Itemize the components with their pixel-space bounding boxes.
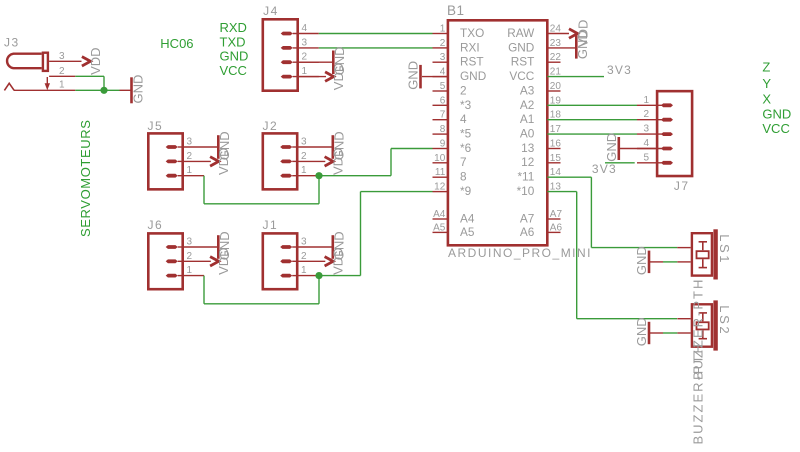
svg-text:GND: GND bbox=[508, 40, 534, 54]
svg-text:Y: Y bbox=[762, 76, 771, 91]
svg-text:1: 1 bbox=[187, 265, 193, 276]
svg-text:GND: GND bbox=[634, 317, 649, 346]
svg-text:*11: *11 bbox=[517, 170, 534, 184]
svg-text:1: 1 bbox=[301, 265, 307, 276]
svg-text:2: 2 bbox=[460, 83, 467, 97]
svg-text:VDD: VDD bbox=[331, 247, 346, 274]
svg-text:Z: Z bbox=[762, 59, 770, 74]
svg-text:4: 4 bbox=[643, 138, 649, 149]
svg-text:3: 3 bbox=[59, 51, 65, 62]
svg-text:RAW: RAW bbox=[507, 26, 535, 40]
svg-text:TXD: TXD bbox=[220, 34, 246, 49]
svg-text:2: 2 bbox=[187, 151, 193, 162]
svg-text:A5: A5 bbox=[460, 225, 475, 239]
svg-text:2: 2 bbox=[301, 151, 307, 162]
svg-text:A3: A3 bbox=[520, 83, 535, 97]
svg-text:3: 3 bbox=[187, 237, 193, 248]
svg-text:RXI: RXI bbox=[460, 40, 480, 54]
svg-text:7: 7 bbox=[460, 155, 467, 169]
svg-text:VCC: VCC bbox=[762, 121, 789, 136]
svg-text:4: 4 bbox=[302, 23, 308, 34]
svg-text:4: 4 bbox=[460, 112, 467, 126]
svg-text:3: 3 bbox=[302, 37, 308, 48]
svg-text:2: 2 bbox=[301, 251, 307, 262]
svg-text:A1: A1 bbox=[520, 112, 534, 126]
svg-text:1: 1 bbox=[187, 165, 193, 176]
svg-text:BUZZER-PTH: BUZZER-PTH bbox=[691, 342, 706, 444]
svg-text:3: 3 bbox=[301, 237, 307, 248]
svg-text:A6: A6 bbox=[520, 225, 535, 239]
svg-text:VDD: VDD bbox=[216, 247, 231, 274]
svg-text:1: 1 bbox=[643, 95, 649, 106]
svg-text:HC06: HC06 bbox=[160, 36, 193, 51]
svg-text:RXD: RXD bbox=[220, 20, 247, 35]
svg-text:J3: J3 bbox=[4, 36, 20, 50]
svg-text:VDD: VDD bbox=[331, 63, 346, 90]
svg-text:VCC: VCC bbox=[220, 63, 247, 78]
svg-text:3: 3 bbox=[643, 124, 649, 135]
svg-text:RST: RST bbox=[460, 55, 484, 69]
svg-text:3: 3 bbox=[187, 137, 193, 148]
svg-text:12: 12 bbox=[521, 155, 534, 169]
svg-text:A4: A4 bbox=[460, 211, 475, 225]
svg-text:GND: GND bbox=[460, 69, 486, 83]
svg-text:GND: GND bbox=[634, 246, 649, 275]
svg-text:5: 5 bbox=[643, 152, 649, 163]
svg-text:A7: A7 bbox=[520, 211, 534, 225]
svg-text:J2: J2 bbox=[263, 119, 279, 133]
svg-text:1: 1 bbox=[301, 165, 307, 176]
svg-text:A2: A2 bbox=[520, 98, 534, 112]
svg-text:*10: *10 bbox=[517, 184, 535, 198]
svg-text:VDD: VDD bbox=[88, 47, 103, 74]
svg-text:B1: B1 bbox=[447, 3, 465, 18]
svg-text:GND: GND bbox=[762, 106, 791, 121]
svg-text:VDD: VDD bbox=[216, 148, 231, 175]
svg-text:GND: GND bbox=[406, 61, 421, 90]
svg-text:2: 2 bbox=[59, 66, 65, 77]
svg-text:J4: J4 bbox=[263, 4, 279, 18]
svg-text:1: 1 bbox=[59, 80, 65, 91]
svg-text:*6: *6 bbox=[460, 141, 472, 155]
svg-text:*3: *3 bbox=[460, 98, 472, 112]
svg-text:1: 1 bbox=[302, 66, 308, 77]
svg-text:2: 2 bbox=[187, 251, 193, 262]
svg-text:VCC: VCC bbox=[509, 69, 534, 83]
svg-text:J5: J5 bbox=[148, 119, 164, 133]
svg-text:TXO: TXO bbox=[460, 26, 484, 40]
svg-text:GND: GND bbox=[130, 75, 145, 104]
svg-text:GND: GND bbox=[575, 30, 590, 59]
svg-text:J7: J7 bbox=[674, 179, 690, 193]
svg-text:SERVOMOTEURS: SERVOMOTEURS bbox=[78, 120, 93, 237]
svg-text:*5: *5 bbox=[460, 127, 472, 141]
svg-text:3V3: 3V3 bbox=[592, 162, 617, 176]
svg-text:J6: J6 bbox=[148, 218, 164, 232]
svg-text:GND: GND bbox=[604, 133, 619, 162]
svg-text:LS1: LS1 bbox=[717, 234, 732, 265]
svg-text:LS2: LS2 bbox=[717, 305, 732, 336]
svg-text:RST: RST bbox=[511, 55, 535, 69]
svg-text:13: 13 bbox=[521, 141, 535, 155]
svg-text:ARDUINO_PRO_MINI: ARDUINO_PRO_MINI bbox=[448, 246, 592, 260]
svg-text:3V3: 3V3 bbox=[607, 63, 632, 77]
svg-text:3: 3 bbox=[301, 137, 307, 148]
svg-text:*9: *9 bbox=[460, 184, 471, 198]
svg-text:J1: J1 bbox=[263, 218, 279, 232]
svg-text:VDD: VDD bbox=[331, 148, 346, 175]
svg-text:X: X bbox=[762, 92, 771, 107]
svg-text:8: 8 bbox=[460, 170, 467, 184]
svg-text:A0: A0 bbox=[520, 127, 535, 141]
svg-text:GND: GND bbox=[220, 49, 249, 64]
svg-text:2: 2 bbox=[302, 52, 308, 63]
svg-text:2: 2 bbox=[643, 109, 649, 120]
